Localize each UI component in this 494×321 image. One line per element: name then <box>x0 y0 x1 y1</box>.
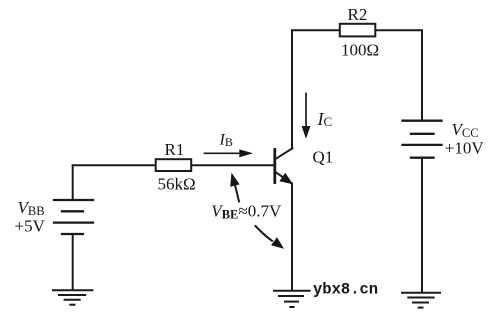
resistor R1 <box>156 140 196 193</box>
wire: VBB vertical drop to battery <box>72 165 74 199</box>
current arrow IB <box>205 132 254 158</box>
svg-text:VCC: VCC <box>452 120 479 140</box>
label VBE with arrows <box>211 173 284 249</box>
ground (middle) <box>274 291 310 307</box>
svg-text:R1: R1 <box>165 140 185 159</box>
svg-text:IB: IB <box>219 132 233 150</box>
battery VCC <box>403 121 442 158</box>
svg-text:+5V: +5V <box>15 217 46 236</box>
resistor R2 <box>340 5 379 59</box>
svg-text:Q1: Q1 <box>313 148 334 167</box>
wire: emitter vertical down to ground <box>291 184 293 291</box>
wire: VCC battery bottom to ground <box>421 159 423 292</box>
ground (right) <box>402 293 440 308</box>
label VCC +10V <box>445 120 485 158</box>
svg-text:R2: R2 <box>348 5 368 24</box>
ground (left) <box>53 290 92 304</box>
svg-text:VBB: VBB <box>18 198 45 218</box>
svg-text:+10V: +10V <box>445 139 485 158</box>
label VBB +5V <box>15 198 46 236</box>
wire: base wire from VBB corner through R1 to transistor base <box>73 164 274 166</box>
svg-text:VBE≈0.7V: VBE≈0.7V <box>211 201 282 221</box>
svg-text:100Ω: 100Ω <box>341 40 379 59</box>
wire: VBB battery bottom to ground <box>72 234 74 290</box>
transistor Q1 <box>275 148 333 185</box>
wire: collector vertical, top rail to R2, down to VCC battery <box>292 30 422 148</box>
svg-text:IC: IC <box>317 109 333 129</box>
svg-text:ybx8.cn: ybx8.cn <box>313 281 378 299</box>
svg-text:56kΩ: 56kΩ <box>158 174 196 193</box>
battery VBB <box>54 200 93 234</box>
current arrow IC <box>302 94 333 139</box>
